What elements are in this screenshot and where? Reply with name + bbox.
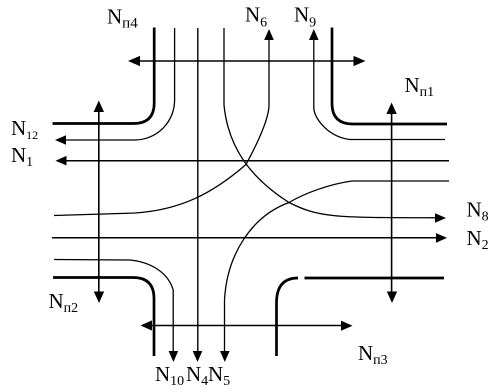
flow N12 line (64, 28, 175, 140)
flow N10 line (54, 260, 173, 353)
flow N1 line (66, 160, 449, 162)
flow N2 arrowhead (436, 233, 447, 243)
pedestrian crossing top left arrowhead (128, 56, 140, 66)
flow N8 line (224, 28, 437, 218)
flow N2 line (52, 237, 436, 239)
pedestrian crossing right line (391, 114, 393, 292)
curb bottom-left (53, 278, 154, 357)
flow N5 arrowhead (220, 351, 230, 362)
curb top-right (332, 28, 447, 125)
flow N1 arrowhead (56, 156, 67, 166)
flow N10 arrowhead (169, 351, 179, 362)
pedestrian crossing left line (98, 112, 100, 292)
pedestrian crossing bottom left arrowhead (141, 320, 153, 330)
pedestrian crossing left up arrowhead (94, 101, 104, 113)
flow N5 line (225, 181, 450, 352)
curb bottom-right (277, 278, 299, 356)
pedestrian crossing bottom line (152, 325, 341, 327)
pedestrian crossing left down arrowhead (94, 292, 104, 304)
flow N12 arrowhead (55, 135, 66, 145)
pedestrian crossing top right arrowhead (354, 56, 366, 66)
pedestrian crossing top line (140, 60, 354, 62)
flow N6 line (54, 40, 269, 216)
flow N4 arrowhead (193, 351, 203, 362)
flow N4 line (197, 28, 199, 352)
flow N6 arrowhead (264, 29, 274, 40)
curb top-left (53, 28, 155, 124)
flow N8 arrowhead (435, 213, 446, 223)
pedestrian crossing right up arrowhead (386, 103, 396, 115)
pedestrian crossing bottom right arrowhead (341, 321, 353, 331)
pedestrian crossing right down arrowhead (387, 292, 397, 304)
flow N9 line (314, 40, 445, 140)
curb bottom-right horizontal (305, 277, 445, 280)
flow N9 arrowhead (309, 29, 319, 40)
